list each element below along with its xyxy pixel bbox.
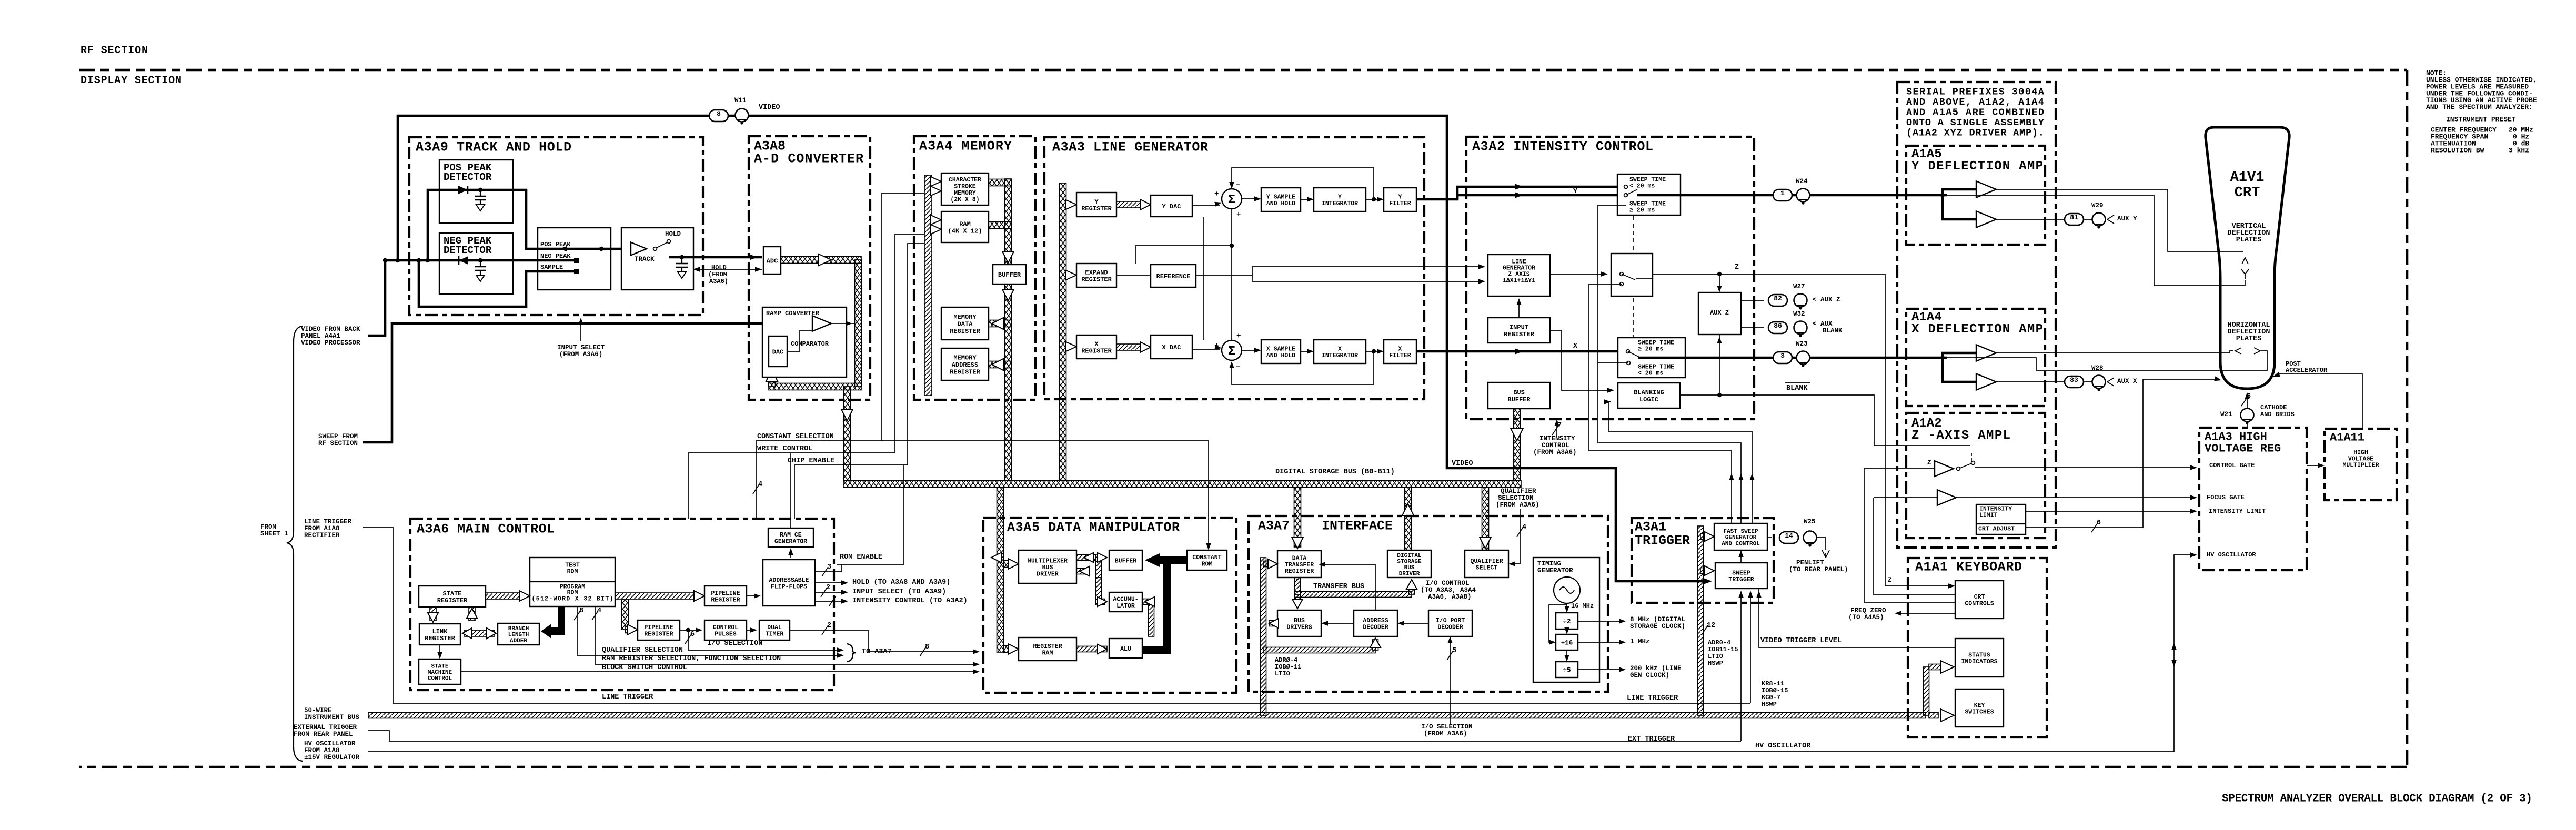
svg-text:ADDER: ADDER	[510, 638, 527, 644]
svg-text:X DEFLECTION AMP: X DEFLECTION AMP	[1911, 322, 2043, 337]
svg-text:5: 5	[1452, 647, 1456, 655]
box AUX Z	[1698, 292, 1741, 335]
box BLANKING LOGIC	[1618, 383, 1680, 408]
wire to Y filter	[1366, 199, 1382, 200]
svg-text:W29: W29	[2091, 202, 2104, 209]
svg-text:INSTRUMENT PRESET: INSTRUMENT PRESET	[2446, 116, 2516, 124]
svg-text:LINE TRIGGER: LINE TRIGGER	[602, 693, 653, 701]
svg-text:82: 82	[1774, 295, 1782, 302]
vertical deflection plate symbols	[2242, 258, 2248, 264]
block A3A9 TRACK AND HOLD	[409, 137, 703, 315]
horizontal deflection plate symbols	[2235, 348, 2241, 354]
svg-text:Z: Z	[1927, 459, 1931, 467]
wire input register to blanking logic	[1550, 330, 1612, 390]
svg-text:CONTROL: CONTROL	[1542, 442, 1569, 449]
svg-text:< AUX Z: < AUX Z	[1813, 296, 1840, 303]
svg-text:W32: W32	[1793, 310, 1805, 318]
svg-text:CATHODE: CATHODE	[2260, 404, 2287, 411]
svg-text:SHEET 1: SHEET 1	[260, 530, 288, 538]
svg-text:VIDEO: VIDEO	[759, 104, 780, 112]
wire X output to A1A4	[1638, 357, 1906, 359]
svg-text:DISPLAY SECTION: DISPLAY SECTION	[80, 75, 182, 87]
bus ROM to PIPELINE REGISTER	[615, 593, 697, 599]
svg-text:SERIAL PREFIXES 3004A: SERIAL PREFIXES 3004A	[1906, 87, 2045, 98]
svg-text:X DAC: X DAC	[1162, 344, 1181, 351]
box SWEEP TIME Y switch	[1617, 174, 1681, 215]
svg-text:VIDEO PROCESSOR: VIDEO PROCESSOR	[301, 339, 360, 347]
svg-text:INPUT SELECT: INPUT SELECT	[557, 344, 605, 351]
svg-text:REGISTER: REGISTER	[1081, 205, 1112, 212]
block A1A3 HIGH VOLTAGE REG	[2199, 428, 2307, 570]
label 12 ADR0-4 IOB11-15 LTIO HSWP	[1702, 625, 1708, 635]
block A1A4 X DEFLECTION AMP	[1906, 309, 2045, 406]
svg-text:I/O SELECTION: I/O SELECTION	[1421, 723, 1473, 731]
svg-text:Y: Y	[1094, 198, 1099, 206]
svg-text:(512-WORD X 32 BIT): (512-WORD X 32 BIT)	[532, 596, 613, 603]
wire expand to reference	[1116, 275, 1151, 276]
svg-text:HV OSCILLATOR: HV OSCILLATOR	[2207, 551, 2256, 559]
svg-text:TRANSFER: TRANSFER	[1285, 562, 1314, 569]
svg-text:CRT: CRT	[2235, 185, 2260, 201]
wire INPUT SELECT output	[815, 592, 846, 593]
wire crt adjust output	[2026, 379, 2217, 528]
svg-text:SWEEP FROM: SWEEP FROM	[318, 433, 358, 440]
svg-text:PIPELINE: PIPELINE	[711, 590, 740, 597]
bus A3A3 left register bus	[1060, 183, 1066, 481]
wire track to ADC	[669, 256, 762, 259]
black bus ROM to BRANCH LENGTH ADDER	[558, 606, 565, 627]
wire dac chain	[1203, 217, 1204, 340]
svg-text:LINE TRIGGER: LINE TRIGGER	[304, 518, 352, 525]
wire control pulses to dual timer	[747, 630, 755, 631]
svg-text:AND GRIDS: AND GRIDS	[2260, 411, 2295, 418]
svg-text:ROM ENABLE: ROM ENABLE	[840, 553, 882, 561]
connector W11	[736, 109, 749, 122]
svg-text:RAM: RAM	[1042, 650, 1053, 657]
wire BLOCK SWITCH CONTROL	[461, 671, 978, 672]
bus MULTIPLEXER-BUFFER links	[1076, 555, 1095, 561]
svg-text:(FROM A3A6): (FROM A3A6)	[1424, 730, 1467, 737]
svg-text:HOLD: HOLD	[711, 264, 727, 271]
box INTENSITY LIMIT / CRT ADJUST	[1976, 504, 2026, 534]
wire sweep from rf section	[363, 323, 815, 442]
svg-text:FROM A1A8: FROM A1A8	[304, 747, 340, 754]
box PIPELINE REGISTER lower	[638, 620, 680, 640]
box Y FILTER	[1384, 188, 1416, 211]
bus arrow at BUS DRIVERS left	[1269, 621, 1277, 626]
svg-text:I/O SELECTION: I/O SELECTION	[707, 640, 762, 647]
svg-text:IOB11-15: IOB11-15	[1708, 646, 1738, 653]
wire focus input	[1874, 497, 1937, 498]
wire intensity limit output	[2026, 511, 2195, 512]
svg-text:CHIP ENABLE: CHIP ENABLE	[788, 457, 834, 465]
svg-text:REGISTER: REGISTER	[1033, 643, 1062, 650]
svg-text:PENLIFT: PENLIFT	[1796, 559, 1824, 566]
wire line trigger	[363, 528, 1750, 703]
svg-text:RAM REGISTER SELECTION, FUNCTI: RAM REGISTER SELECTION, FUNCTION SELECTI…	[602, 655, 781, 663]
svg-text:TIMING: TIMING	[1537, 560, 1561, 568]
svg-text:≥ 20 ms: ≥ 20 ms	[1629, 207, 1655, 214]
box X SAMPLE AND HOLD	[1261, 340, 1301, 363]
pill 8 on video line	[709, 110, 728, 122]
wire Y sweep lower contact link	[1598, 205, 1626, 206]
svg-text:A3A6 MAIN CONTROL: A3A6 MAIN CONTROL	[417, 522, 555, 537]
wire A1A3 to A1A11	[2307, 465, 2322, 466]
svg-text:HV OSCILLATOR: HV OSCILLATOR	[1755, 742, 1811, 750]
box PIPELINE REGISTER upper	[705, 586, 747, 606]
svg-text:TRACK: TRACK	[635, 256, 655, 263]
wire fast sweep output to W25	[1767, 537, 1772, 538]
box LINE GENERATOR Z AXIS	[1488, 255, 1550, 296]
svg-text:STATUS: STATUS	[1968, 652, 1990, 659]
svg-text:3 kHz: 3 kHz	[2509, 147, 2529, 155]
svg-text:PLATES: PLATES	[2236, 236, 2262, 244]
summer X sigma	[1222, 340, 1242, 360]
box TIMING GENERATOR	[1533, 558, 1599, 682]
oscillator symbol	[1554, 577, 1580, 603]
box STATUS INDICATORS	[1955, 639, 2004, 677]
bus STATE REGISTER to PROGRAM ROM	[486, 593, 522, 599]
bus to ADDRESS DECODER bottom	[1263, 647, 1375, 653]
wire 8 MHz output	[1578, 621, 1624, 622]
svg-text:12: 12	[1707, 622, 1715, 630]
amp X lower	[1976, 373, 1996, 390]
wire Y line to CRT lower plate	[1947, 195, 2245, 286]
amp X upper	[1976, 345, 1996, 361]
wire penlift	[1817, 538, 1826, 550]
svg-text:3: 3	[827, 563, 831, 571]
svg-text:FREQ ZERO: FREQ ZERO	[1850, 607, 1886, 614]
wire osc to div2	[1566, 603, 1567, 611]
box BUFFER (A3A5)	[1109, 550, 1142, 570]
block A3A2 INTENSITY CONTROL	[1466, 137, 1754, 419]
svg-text:W28: W28	[2091, 365, 2104, 372]
bus ACCUMULATOR to ALU link	[1149, 605, 1154, 636]
wire I/O SELECTION from A3A6	[1450, 639, 1451, 724]
svg-text:GEN CLOCK): GEN CLOCK)	[1630, 672, 1669, 679]
svg-text:< 20 ms: < 20 ms	[1638, 370, 1663, 377]
bus arrow ADC output	[819, 254, 831, 266]
bus arrow into DATA TRANSFER REGISTER left	[1263, 561, 1269, 567]
svg-text:TIMER: TIMER	[766, 631, 784, 638]
wire to Y integrator	[1301, 199, 1312, 200]
wire pipeline to flip-flops	[747, 595, 759, 596]
svg-text:−: −	[1236, 362, 1240, 371]
wire video trigger level riser	[1759, 589, 1955, 647]
svg-text:PANEL A4A1: PANEL A4A1	[301, 332, 340, 340]
svg-text:INTERFACE: INTERFACE	[1322, 519, 1393, 534]
bus A3A1 riser from instrument bus	[1698, 526, 1704, 715]
block A3A7 INTERFACE	[1249, 516, 1608, 692]
wire X line to CRT right plate	[1947, 351, 2267, 370]
svg-text:8: 8	[579, 607, 583, 615]
wire HOLD output	[815, 582, 846, 583]
svg-text:DETECTOR: DETECTOR	[444, 171, 492, 183]
svg-text:HV OSCILLATOR: HV OSCILLATOR	[304, 740, 356, 747]
svg-text:(FROM A3A6): (FROM A3A6)	[1496, 501, 1539, 509]
svg-text:NEG PEAK: NEG PEAK	[540, 252, 571, 260]
wire DAC to comparator	[787, 330, 812, 351]
svg-text:QUALIFIER: QUALIFIER	[1470, 558, 1503, 565]
svg-text:EXPAND: EXPAND	[1085, 269, 1108, 276]
pill 81 and connector W29 AUX Y	[2065, 214, 2084, 225]
svg-text:STATE: STATE	[442, 590, 461, 598]
svg-text:X: X	[1573, 342, 1578, 350]
svg-text:SWITCHES: SWITCHES	[1965, 709, 1994, 716]
svg-text:ONTO A SINGLE ASSEMBLY: ONTO A SINGLE ASSEMBLY	[1906, 117, 2045, 128]
svg-text:EXT TRIGGER: EXT TRIGGER	[1628, 735, 1675, 743]
box DAC	[769, 336, 787, 367]
box SWEEP TIME X switch	[1618, 338, 1685, 378]
svg-text:(FROM: (FROM	[708, 271, 727, 278]
wire constant selection	[756, 441, 1209, 548]
box DATA TRANSFER REGISTER	[1277, 551, 1321, 578]
wire dual timer output	[790, 630, 978, 652]
wire address decoder to bus drivers	[1323, 623, 1354, 624]
svg-text:(4K X 12): (4K X 12)	[948, 227, 982, 235]
wire FREQ ZERO	[1897, 613, 1955, 614]
svg-text:DECODER: DECODER	[1363, 624, 1388, 631]
svg-text:Z: Z	[1888, 576, 1892, 584]
svg-text:HOLD: HOLD	[665, 230, 681, 238]
svg-text:REGISTER: REGISTER	[950, 328, 980, 335]
tube A1V1 CRT outline	[2206, 127, 2289, 389]
svg-text:PIPELINE: PIPELINE	[644, 624, 673, 631]
svg-text:AUX X: AUX X	[2117, 378, 2137, 385]
svg-text:+: +	[1214, 190, 1219, 198]
wire focus to focus gate	[1956, 497, 2195, 498]
svg-text:INTENSITY CONTROL (TO A3A2): INTENSITY CONTROL (TO A3A2)	[852, 597, 968, 605]
wire sample branch	[419, 260, 577, 307]
svg-text:DETECTOR: DETECTOR	[444, 245, 492, 256]
svg-text:CONTROLS: CONTROLS	[1965, 601, 1994, 608]
bus arrows into registers	[1066, 200, 1076, 209]
svg-text:BLANK: BLANK	[1786, 384, 1808, 392]
wire Y output to A1A5	[1637, 194, 1906, 197]
svg-text:A-D CONVERTER: A-D CONVERTER	[754, 151, 863, 167]
svg-text:1: 1	[1780, 189, 1785, 197]
wire rom enable riser	[903, 465, 904, 564]
wire X sweep lower contact to A3A1	[1598, 363, 1741, 523]
box ADC	[763, 247, 781, 274]
box BUFFER	[993, 265, 1026, 284]
svg-text:INSTRUMENT BUS: INSTRUMENT BUS	[304, 714, 360, 721]
wire pos peak arrow in selector	[559, 246, 567, 251]
svg-text:STROKE: STROKE	[954, 184, 976, 190]
box RAM CE GENERATOR	[768, 528, 813, 547]
svg-text:A3A9 TRACK AND HOLD: A3A9 TRACK AND HOLD	[416, 140, 571, 155]
svg-text:AUX Z: AUX Z	[1710, 309, 1729, 317]
bus arrow out left	[991, 552, 1002, 563]
pill 83 and connector W28 AUX X	[2065, 376, 2084, 388]
black bus CONSTANT ROM to BUFFER	[1145, 553, 1187, 567]
bus A3A7 left vertical to instrument bus	[1261, 558, 1266, 715]
brace TO A3A7	[847, 644, 856, 662]
svg-text:RESOLUTION BW: RESOLUTION BW	[2431, 147, 2484, 155]
svg-text:TRIGGER: TRIGGER	[1635, 533, 1690, 549]
brace FROM SHEET 1	[287, 326, 303, 761]
svg-text:ROM: ROM	[1202, 561, 1213, 568]
wire blanking second input from A3A1	[1608, 401, 1609, 402]
bus arrows into fast sweep and sweep trigger	[1700, 534, 1705, 540]
svg-text:FROM REAR PANEL: FROM REAR PANEL	[294, 731, 353, 738]
svg-text:Σ: Σ	[1228, 345, 1235, 359]
svg-text:INDICATORS: INDICATORS	[1961, 659, 1997, 665]
wire input register to line gen z	[1518, 300, 1520, 318]
svg-text:X: X	[1094, 340, 1099, 348]
wire Z from A3A2 switch to CRT CONTROLS	[1885, 274, 1953, 586]
wire sweep trigger to fast sweep	[1740, 552, 1742, 563]
svg-text:BUS: BUS	[1294, 618, 1305, 624]
svg-text:÷2: ÷2	[1563, 618, 1571, 625]
box X FILTER	[1384, 340, 1416, 363]
svg-text:(FROM A3A6): (FROM A3A6)	[559, 351, 603, 358]
bus STATE REGISTER-LINK vertical buses	[430, 607, 436, 621]
svg-text:STATE: STATE	[431, 664, 448, 670]
stub ends neg peak and sample	[574, 258, 579, 263]
amp Y upper	[1976, 181, 1996, 197]
svg-text:REGISTER: REGISTER	[437, 597, 468, 604]
svg-text:Y: Y	[1573, 188, 1578, 196]
box RAMP CONVERTER	[762, 307, 847, 377]
svg-text:8: 8	[717, 110, 721, 118]
svg-text:DUAL: DUAL	[767, 624, 782, 631]
box CONSTANT ROM	[1187, 550, 1227, 570]
bus ROM output down to lower pipeline	[622, 599, 629, 630]
bus drop to QUALIFIER SELECT	[1482, 487, 1489, 550]
svg-text:COMPARATOR: COMPARATOR	[791, 340, 829, 348]
svg-text:REGISTER: REGISTER	[1285, 568, 1314, 575]
svg-text:MEMORY: MEMORY	[953, 313, 977, 321]
svg-text:83: 83	[2070, 376, 2078, 384]
svg-text:DIGITAL STORAGE BUS (BØ-B11): DIGITAL STORAGE BUS (BØ-B11)	[1275, 468, 1395, 476]
wire to X integrator	[1301, 351, 1312, 352]
svg-text:PULSES: PULSES	[715, 631, 737, 638]
wire external trigger	[368, 731, 1741, 741]
svg-text:MULTIPLIER: MULTIPLIER	[2342, 462, 2379, 469]
wire sigma X to sample hold	[1242, 350, 1259, 351]
svg-text:+: +	[1236, 332, 1241, 340]
box BUS BUFFER	[1488, 382, 1550, 409]
svg-text:DRIVER: DRIVER	[1037, 571, 1059, 578]
svg-text:REFERENCE: REFERENCE	[1156, 273, 1191, 280]
bus LINK-BRANCH horizontal	[464, 630, 495, 636]
display section right border	[2406, 70, 2409, 767]
wire LINK to STATE MACHINE	[439, 645, 440, 657]
svg-text:W27: W27	[1793, 283, 1805, 290]
svg-text:CONTROL GATE: CONTROL GATE	[2209, 462, 2255, 469]
svg-text:KCØ-7: KCØ-7	[1762, 694, 1780, 701]
svg-text:A3A2 INTENSITY CONTROL: A3A2 INTENSITY CONTROL	[1472, 139, 1653, 155]
amp Y lower	[1976, 211, 1996, 227]
svg-text:STORAGE CLOCK): STORAGE CLOCK)	[1630, 623, 1685, 630]
svg-text:Σ: Σ	[1228, 193, 1235, 207]
svg-text:86: 86	[1774, 322, 1782, 330]
diode pos peak	[458, 186, 468, 194]
svg-text:ADRØ-4: ADRØ-4	[1275, 656, 1297, 664]
svg-text:LINK: LINK	[432, 628, 448, 635]
wire Y thick from A3A3	[1416, 187, 1617, 199]
bus BUFFER down to ACCUMULATOR	[1096, 578, 1102, 605]
svg-text:REGISTER: REGISTER	[425, 635, 455, 642]
box DUAL TIMER	[759, 620, 790, 640]
svg-text:RECTIFIER: RECTIFIER	[304, 532, 340, 539]
capacitor track hold	[680, 255, 684, 259]
svg-text:2: 2	[827, 622, 831, 630]
wire pos peak branch	[428, 190, 629, 260]
svg-text:Z -AXIS AMPL: Z -AXIS AMPL	[1911, 429, 2010, 443]
svg-text:IOBØ-15: IOBØ-15	[1762, 687, 1788, 694]
svg-text:X: X	[1338, 346, 1342, 353]
box REFERENCE	[1151, 265, 1196, 287]
bus arrows into RAM	[931, 215, 941, 225]
box Y INTEGRATOR	[1314, 188, 1366, 211]
svg-text:DATA: DATA	[958, 320, 973, 328]
bus TRANSFER BUS	[1294, 592, 1412, 598]
svg-text:RAM: RAM	[959, 220, 971, 228]
svg-text:W23: W23	[1796, 340, 1808, 348]
wire to X filter	[1366, 351, 1382, 352]
svg-text:QUALIFIER SELECTION: QUALIFIER SELECTION	[602, 646, 683, 654]
svg-text:8: 8	[925, 643, 929, 651]
box ACCUMULATOR	[1109, 592, 1142, 612]
wire ROM ENABLE	[815, 564, 904, 572]
wire sigma Y to sample hold	[1242, 198, 1259, 199]
wire Y feedback	[1232, 168, 1374, 199]
svg-text:TRIGGER: TRIGGER	[1728, 576, 1754, 583]
svg-text:ADDRESS: ADDRESS	[952, 361, 978, 369]
wire BLANK output	[1680, 395, 1970, 446]
svg-text:INTENSITY LIMIT: INTENSITY LIMIT	[2209, 508, 2266, 515]
svg-text:DIGITAL: DIGITAL	[1397, 553, 1422, 559]
svg-text:LATOR: LATOR	[1116, 603, 1135, 610]
svg-text:200 kHz (LINE: 200 kHz (LINE	[1630, 665, 1682, 672]
wire chip enable	[794, 244, 924, 465]
svg-text:LOGIC: LOGIC	[1639, 396, 1658, 403]
svg-text:REGISTER: REGISTER	[711, 597, 740, 604]
svg-text:(2K X 8): (2K X 8)	[950, 197, 979, 204]
svg-text:AND A1A5 ARE COMBINED: AND A1A5 ARE COMBINED	[1906, 107, 2044, 118]
svg-text:1 MHz: 1 MHz	[1630, 638, 1650, 645]
hv oscillator riser arrows	[2171, 643, 2176, 650]
svg-text:A1A1 KEYBOARD: A1A1 KEYBOARD	[1915, 560, 2022, 575]
svg-text:(TO A3A3, A3A4: (TO A3A3, A3A4	[1421, 586, 1476, 594]
svg-text:Y: Y	[1398, 194, 1402, 201]
svg-text:HOLD (TO A3A8 AND A3A9): HOLD (TO A3A8 AND A3A9)	[852, 579, 950, 586]
box Y REGISTER	[1076, 193, 1116, 217]
svg-text:AUX Y: AUX Y	[2117, 215, 2137, 222]
box I/O PORT DECODER	[1428, 610, 1472, 636]
wire 200 kHz output	[1578, 669, 1624, 670]
box divide by 2	[1556, 613, 1578, 629]
wire write control	[688, 234, 924, 453]
wire flip-flops to RAM CE	[790, 550, 791, 558]
box X INTEGRATOR	[1314, 340, 1366, 363]
box X DAC	[1151, 335, 1192, 359]
box BRANCH LENGTH ADDER	[498, 623, 539, 645]
svg-text:W24: W24	[1796, 178, 1808, 185]
box DIGITAL STORAGE BUS DRIVER	[1387, 550, 1431, 578]
svg-text:X SAMPLE: X SAMPLE	[1266, 346, 1295, 353]
svg-text:+: +	[1214, 341, 1219, 350]
switch after Z amp	[1957, 467, 1960, 471]
summer Y sigma	[1222, 189, 1242, 209]
svg-text:÷5: ÷5	[1563, 667, 1571, 674]
bus arrow into MEMORY DATA REGISTER	[989, 320, 1011, 327]
svg-text:REGISTER: REGISTER	[1504, 331, 1534, 338]
svg-text:BUS: BUS	[1042, 564, 1053, 571]
svg-text:BUS: BUS	[1404, 565, 1415, 571]
